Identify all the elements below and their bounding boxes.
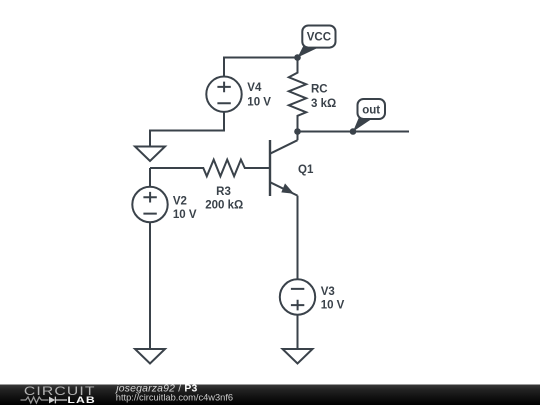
svg-text:3 kΩ: 3 kΩ <box>311 98 336 110</box>
CircuitLab logo resistor-diode glyph <box>21 397 68 404</box>
svg-text:V4: V4 <box>247 82 262 94</box>
svg-text:10 V: 10 V <box>247 97 271 109</box>
node out attach dot <box>350 128 357 135</box>
net flag out <box>353 99 385 132</box>
ground (V2) <box>135 349 165 364</box>
net flag VCC <box>298 26 336 58</box>
voltage source V3 <box>280 279 345 314</box>
voltage source V2 <box>132 168 197 222</box>
svg-text:V3: V3 <box>321 286 335 298</box>
CircuitLab logo text LAB <box>67 396 95 405</box>
svg-text:200 kΩ: 200 kΩ <box>205 200 243 212</box>
wire: emitter to V3 <box>297 196 299 280</box>
voltage source V4 <box>206 77 271 112</box>
svg-text:VCC: VCC <box>307 32 331 44</box>
ground (V3) <box>283 349 313 364</box>
ground (V4) <box>135 147 165 162</box>
svg-text:Q1: Q1 <box>298 164 314 176</box>
svg-text:V2: V2 <box>173 195 187 207</box>
footer url line <box>116 393 233 403</box>
transistor Q1 <box>270 132 314 197</box>
wire: V2 bottom to ground <box>149 222 151 349</box>
svg-text:LAB: LAB <box>67 396 95 405</box>
svg-text:http://circuitlab.com/c4w3nf6: http://circuitlab.com/c4w3nf6 <box>116 393 233 403</box>
resistor R3 <box>150 160 270 212</box>
wire: V4 bottom to ground <box>150 112 224 147</box>
wire: out net horizontal <box>298 131 410 133</box>
svg-text:RC: RC <box>311 84 328 96</box>
svg-text:10 V: 10 V <box>173 209 197 221</box>
node VCC junction dot <box>294 54 301 61</box>
resistor RC <box>289 58 336 132</box>
footer credit line <box>114 383 197 394</box>
wire: V4 top to VCC node <box>224 58 298 77</box>
wire: V3 bottom to ground <box>297 315 299 349</box>
svg-text:R3: R3 <box>216 186 231 198</box>
svg-text:10 V: 10 V <box>321 299 345 311</box>
CircuitLab logo text CIRCUIT <box>24 384 96 398</box>
svg-text:out: out <box>362 104 380 116</box>
footer bar <box>0 385 540 405</box>
node: RC bottom / collector junction dot <box>294 128 301 135</box>
